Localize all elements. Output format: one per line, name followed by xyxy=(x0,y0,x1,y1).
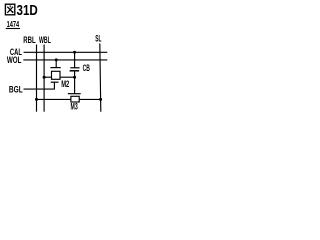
capacitor CB bottom plate xyxy=(70,70,80,72)
transistor M2 gate bar xyxy=(50,67,60,69)
node dot WOL-M2 gate junction xyxy=(55,58,58,61)
svg-text:WBL: WBL xyxy=(39,35,51,45)
node dot RBL-M3 junction xyxy=(35,98,38,101)
wire WBL vertical xyxy=(43,45,45,112)
transistor M3 channel box xyxy=(71,96,79,102)
svg-text:M3: M3 xyxy=(71,101,78,111)
title glyph 図 (figure) xyxy=(5,4,14,15)
svg-text:M2: M2 xyxy=(61,79,69,89)
wire M3 drain (box to SL) xyxy=(79,98,101,100)
wire storage node vertical (CB to M3 gate) xyxy=(74,71,76,94)
wire RBL vertical xyxy=(36,45,38,112)
transistor M2 back-gate bar xyxy=(51,81,59,83)
wire SL vertical xyxy=(100,43,101,111)
capacitor CB top plate xyxy=(70,67,79,69)
transistor M2 gate lead xyxy=(55,60,57,68)
svg-text:SL: SL xyxy=(95,34,101,44)
transistor M3 gate bar xyxy=(68,93,81,95)
node dot WBL-M2 source junction xyxy=(43,76,46,79)
node dot CAL-CB junction xyxy=(73,51,76,54)
svg-text:CB: CB xyxy=(83,63,90,73)
wire WOL horizontal xyxy=(23,59,107,61)
wire M2 source (WBL to box) xyxy=(44,76,51,78)
node dot storage node junction xyxy=(73,76,76,79)
wire M2 drain (box to storage node) xyxy=(60,76,75,78)
wire BGL horizontal with riser to M2 back gate xyxy=(24,82,55,89)
underline of 1474 xyxy=(6,28,20,30)
svg-text:BGL: BGL xyxy=(9,84,23,94)
capacitor CB top lead xyxy=(74,52,76,68)
svg-text:1474: 1474 xyxy=(7,19,20,29)
svg-text:31D: 31D xyxy=(17,2,38,19)
wire M3 source (RBL to box) xyxy=(37,98,71,100)
wire CAL horizontal xyxy=(24,51,108,53)
node dot SL-M3 junction xyxy=(99,98,102,101)
transistor M2 channel box xyxy=(52,71,61,79)
svg-text:WOL: WOL xyxy=(7,55,22,65)
svg-text:RBL: RBL xyxy=(23,35,36,45)
